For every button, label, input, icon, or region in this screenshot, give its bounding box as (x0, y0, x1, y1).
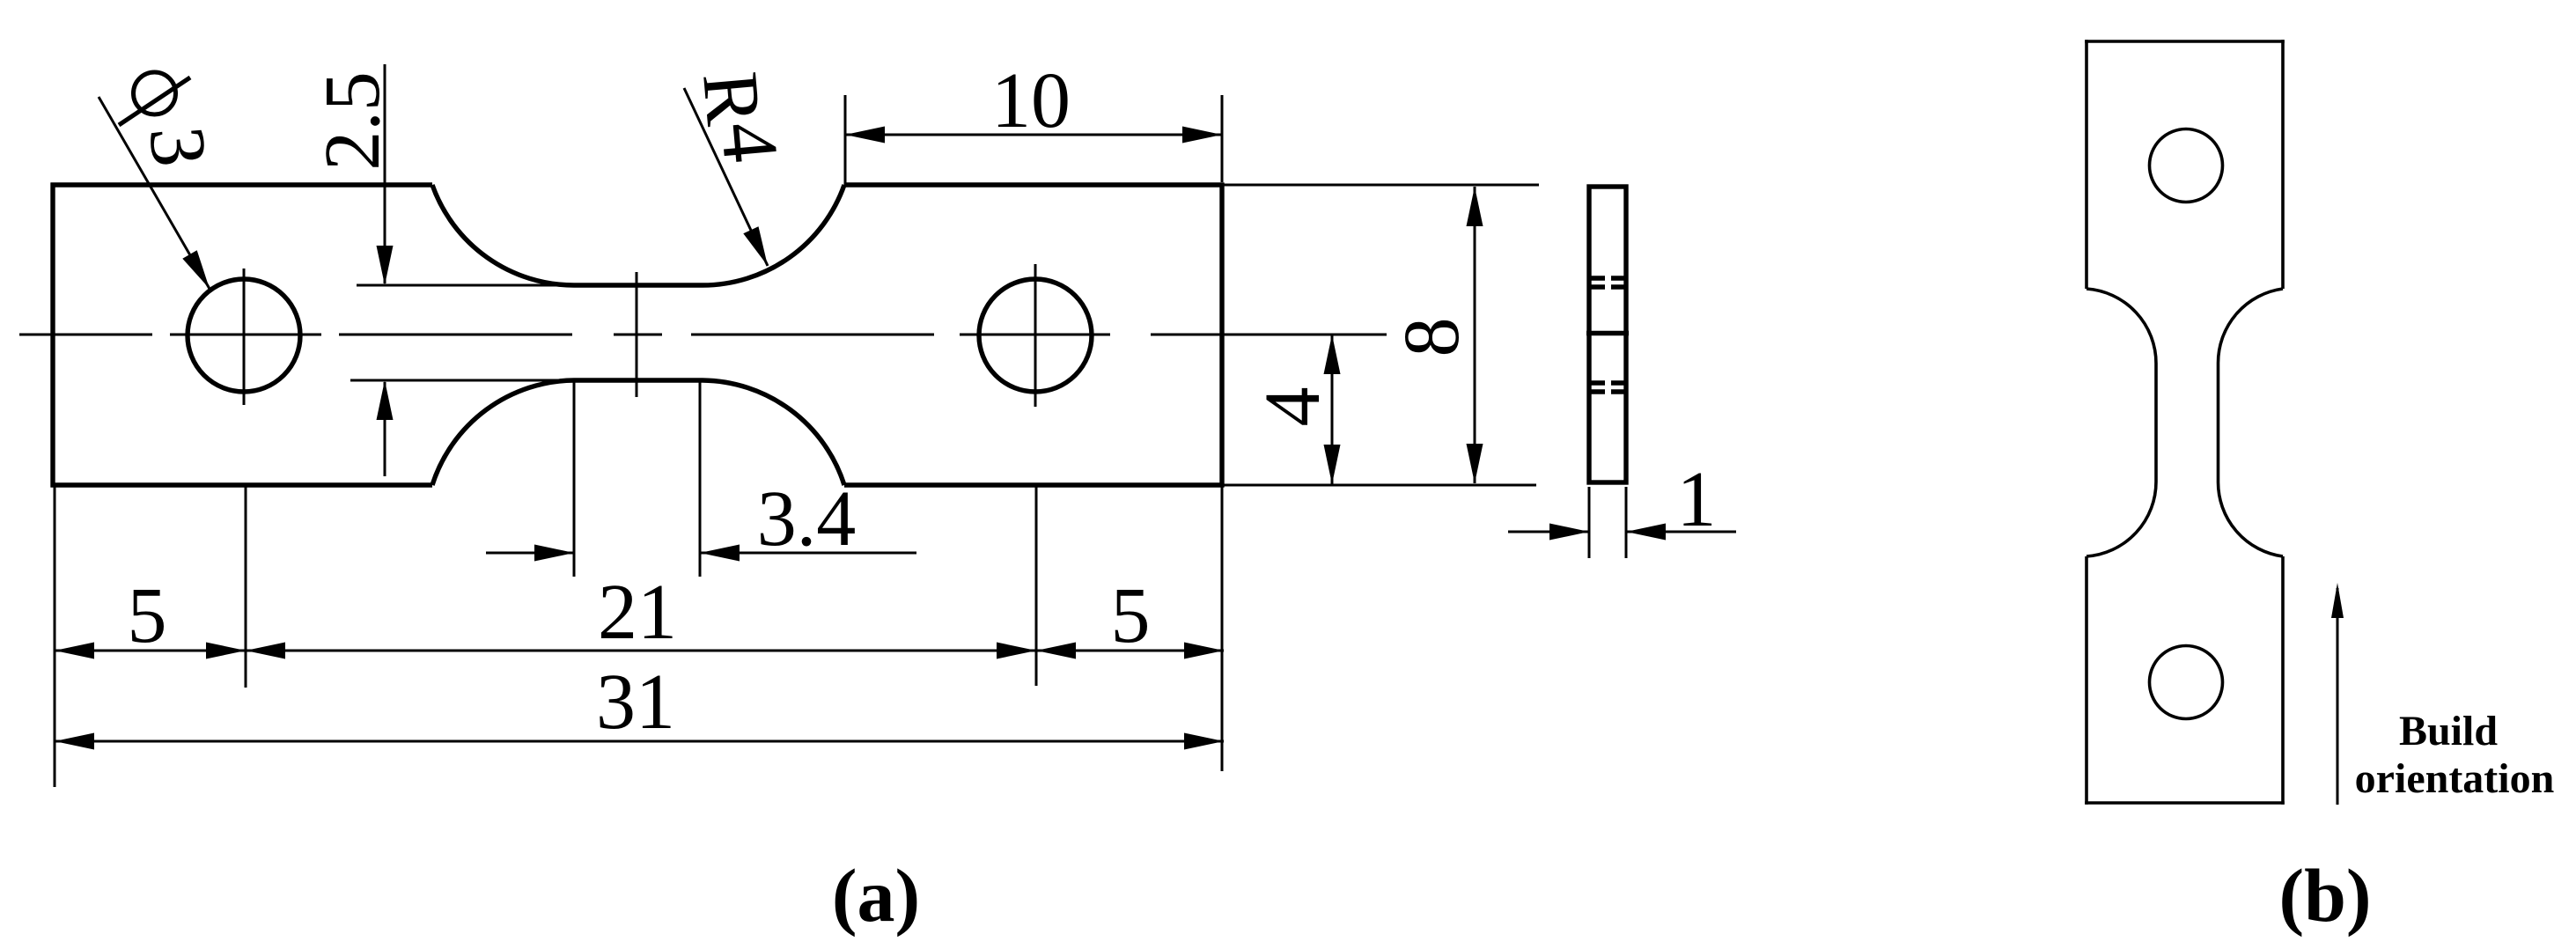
svg-text:10: 10 (991, 57, 1071, 144)
svg-text:31: 31 (596, 658, 675, 746)
svg-text:Build: Build (2399, 708, 2498, 754)
svg-text:orientation: orientation (2355, 755, 2555, 802)
svg-text:(b): (b) (2278, 853, 2371, 938)
svg-text:R: R (686, 69, 777, 129)
svg-text:21: 21 (598, 569, 677, 656)
svg-text:1: 1 (1677, 456, 1717, 543)
svg-text:(a): (a) (832, 853, 920, 938)
svg-text:8: 8 (1388, 318, 1476, 357)
svg-text:2.5: 2.5 (309, 71, 396, 171)
svg-text:5: 5 (128, 572, 167, 659)
svg-text:4: 4 (704, 119, 795, 166)
svg-text:3.4: 3.4 (757, 475, 857, 563)
svg-text:4: 4 (1249, 387, 1336, 427)
svg-text:3: 3 (133, 123, 224, 170)
svg-text:5: 5 (1111, 572, 1151, 659)
